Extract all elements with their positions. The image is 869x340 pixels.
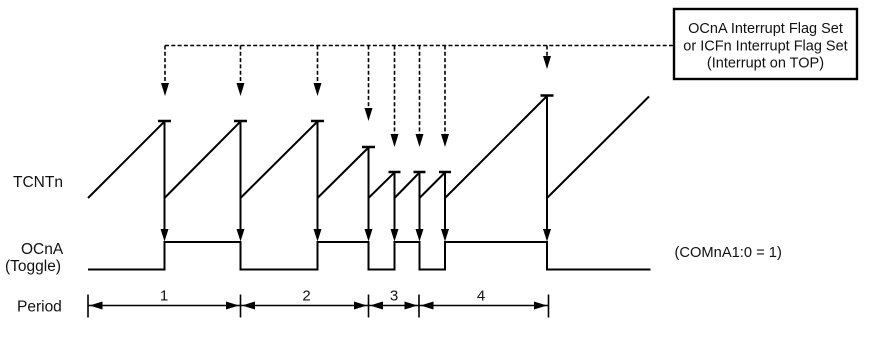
period arrowhead 2 left <box>242 302 255 310</box>
svg-text:OCnA: OCnA <box>21 241 64 258</box>
period baseline <box>88 305 549 307</box>
peak drop arrow 8 <box>543 96 551 242</box>
period tick 1 <box>87 295 89 318</box>
TOP bar peak 3 <box>311 120 324 123</box>
TCNTn sawtooth ramp 6 <box>395 173 420 199</box>
dashed drop arrow 8 <box>543 46 551 70</box>
TCNTn final ramp <box>547 97 649 199</box>
TCNTn sawtooth ramp 2 <box>165 122 241 199</box>
OCnA toggle waveform <box>88 242 651 270</box>
TOP bar peak 6 <box>414 171 426 174</box>
TCNTn sawtooth ramp 1 <box>88 122 165 199</box>
peak drop arrow 2 <box>237 121 245 242</box>
period tick 3 <box>368 295 370 318</box>
TCNTn sawtooth ramp 5 <box>369 173 395 199</box>
dashed drop arrow 3 <box>314 46 322 97</box>
dashed drop arrow 1 <box>161 46 169 97</box>
period tick 4 <box>418 295 420 318</box>
dashed drop arrow 2 <box>237 46 245 97</box>
svg-text:or ICFn Interrupt Flag Set: or ICFn Interrupt Flag Set <box>683 38 847 54</box>
svg-text:TCNTn: TCNTn <box>13 174 63 191</box>
svg-text:OCnA Interrupt Flag Set: OCnA Interrupt Flag Set <box>688 21 843 37</box>
TOP bar peak 4 <box>362 146 375 149</box>
period arrowhead 2 right <box>354 302 367 310</box>
svg-text:(Interrupt on TOP): (Interrupt on TOP) <box>707 56 824 72</box>
peak drop arrow 5 <box>391 172 399 242</box>
dashed drop arrow 4 <box>365 46 373 122</box>
svg-text:3: 3 <box>390 288 398 305</box>
TCNTn sawtooth ramp 4 <box>318 148 369 199</box>
TOP bar peak 5 <box>389 171 401 174</box>
period arrowhead 4 right <box>534 302 547 310</box>
TCNTn sawtooth ramp 7 <box>420 173 446 199</box>
period arrowhead 1 right <box>226 302 239 310</box>
period arrowhead 3 left <box>370 302 383 310</box>
svg-text:2: 2 <box>302 288 310 305</box>
period arrowhead 1 left <box>90 302 103 310</box>
TOP bar peak 1 <box>158 120 171 123</box>
interrupt note box <box>674 9 857 79</box>
svg-text:(COMnA1:0 = 1): (COMnA1:0 = 1) <box>675 245 782 261</box>
TOP bar peak 8 <box>541 94 554 97</box>
svg-text:Period: Period <box>17 298 62 315</box>
peak drop arrow 3 <box>314 121 322 242</box>
period tick 2 <box>240 295 242 318</box>
peak drop arrow 6 <box>416 172 424 242</box>
svg-text:1: 1 <box>160 288 168 305</box>
period arrowhead 3 right <box>405 302 418 310</box>
peak drop arrow 7 <box>441 172 449 242</box>
TOP bar peak 7 <box>439 171 451 174</box>
dashed drop arrow 7 <box>441 46 449 148</box>
dashed horizontal flag line <box>165 45 673 47</box>
TCNTn sawtooth ramp 3 <box>241 122 318 199</box>
svg-text:4: 4 <box>477 288 485 305</box>
period tick 5 <box>548 295 550 318</box>
peak drop arrow 4 <box>365 147 373 242</box>
TOP bar peak 2 <box>234 120 247 123</box>
svg-text:(Toggle): (Toggle) <box>5 258 61 275</box>
peak drop arrow 1 <box>161 121 169 242</box>
period arrowhead 4 left <box>421 302 434 310</box>
dashed drop arrow 5 <box>391 46 399 148</box>
TCNTn sawtooth ramp 8 <box>445 96 547 198</box>
dashed drop arrow 6 <box>416 46 424 148</box>
